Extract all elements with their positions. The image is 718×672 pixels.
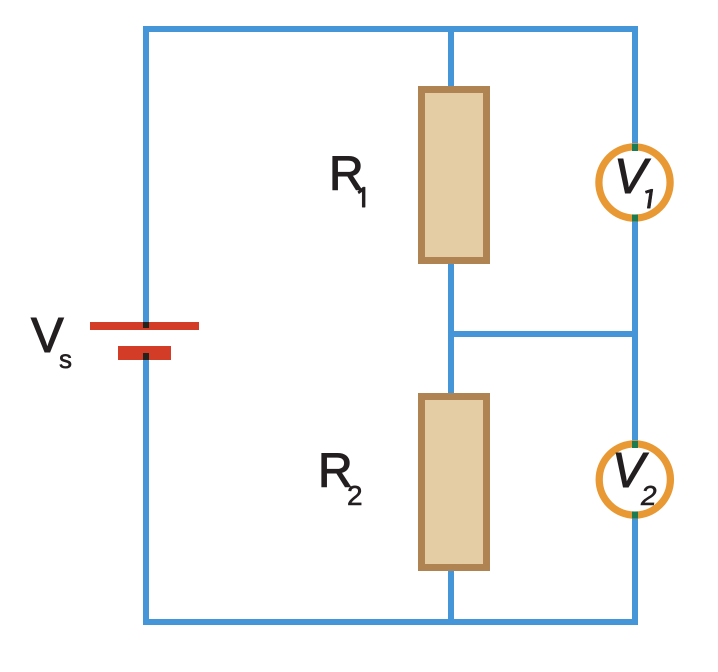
svg-text:V: V (614, 150, 651, 204)
svg-text:2: 2 (347, 480, 363, 511)
resistor R1 (422, 90, 487, 261)
voltmeter V1 wire overlap bottom (632, 215, 638, 222)
voltmeter V1 wire overlap top (632, 144, 638, 151)
wire middle horizontal (node between R1 and R2 to meters) (448, 331, 638, 337)
battery wire overlap mark top (143, 322, 149, 328)
voltmeter V1 body (599, 147, 670, 218)
wire right vertical (through V1 and V2) (632, 26, 638, 625)
label R1 (329, 148, 365, 207)
battery Vs bottom plate (118, 346, 171, 360)
svg-text:s: s (59, 344, 72, 374)
wire left vertical lower (battery to bottom rail) (143, 353, 149, 625)
label R2 (318, 445, 363, 511)
label Vs (31, 309, 72, 374)
wire left vertical upper (top rail to battery) (143, 26, 149, 325)
voltmeter V2 wire overlap top (632, 441, 638, 448)
voltmeter V2 wire overlap bottom (632, 512, 638, 519)
battery Vs top plate (90, 322, 199, 330)
label V2 (meter face) (612, 444, 657, 511)
voltmeter V2 body (599, 444, 670, 515)
svg-text:2: 2 (640, 480, 657, 511)
resistor R2 (422, 397, 487, 568)
label V1 (meter face) (614, 150, 653, 208)
wire bottom horizontal (143, 619, 638, 625)
battery wire overlap mark bottom (143, 353, 149, 360)
wire top horizontal (143, 26, 638, 32)
wire middle vertical (through R1 and R2) (448, 26, 454, 625)
